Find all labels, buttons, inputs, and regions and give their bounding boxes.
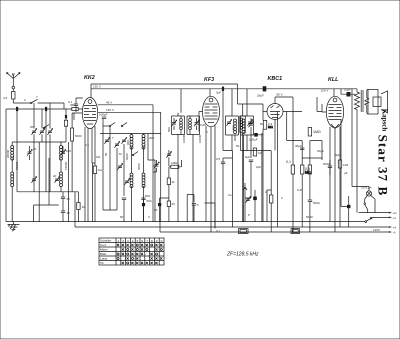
trimmer osc4 [117, 164, 122, 170]
capacitor 5000 [308, 200, 320, 205]
svg-text:20000: 20000 [6, 149, 10, 158]
svg-text:148: 148 [343, 163, 348, 167]
switch mains [365, 217, 372, 222]
text ZF [226, 251, 259, 257]
svg-text:0,1: 0,1 [85, 143, 90, 147]
capacitor blob inline2 [45, 107, 47, 111]
wire +H line [359, 211, 397, 215]
rail 45V [98, 101, 153, 105]
wire KK2 anode to rail [90, 89, 92, 98]
wire osc bottom [103, 134, 155, 222]
coil det [240, 116, 246, 133]
label misc13 [53, 174, 57, 178]
label s5 [85, 143, 90, 147]
svg-text:50: 50 [104, 152, 108, 156]
svg-text:1Ω: 1Ω [82, 205, 87, 209]
resistor 1M af [253, 148, 262, 156]
trimmer mid2 [166, 150, 171, 166]
label misc7 [216, 229, 221, 233]
coil IF1a [180, 119, 183, 130]
trimmer T1 [27, 150, 32, 156]
wire sg2 cluster [181, 89, 200, 222]
svg-text:50: 50 [154, 208, 158, 212]
svg-text:5: 5 [197, 203, 199, 207]
svg-text:6000: 6000 [137, 163, 141, 170]
label misc1 [149, 136, 154, 140]
switch S1 band [13, 99, 64, 103]
svg-text:-H: -H [393, 216, 396, 220]
volume pot [243, 187, 251, 210]
wire KBC1 sides [263, 112, 302, 134]
capacitor 90uF [253, 190, 257, 222]
svg-text:45: 45 [67, 197, 71, 201]
svg-text:µF: µF [344, 171, 348, 175]
wire -H line [372, 216, 396, 220]
coil Losc1 [126, 135, 133, 150]
svg-text:KF3: KF3 [204, 77, 214, 83]
wire misc right [302, 97, 341, 196]
coil Losc3 [130, 173, 133, 188]
svg-text:0,05: 0,05 [200, 123, 206, 127]
trimmer T2 [60, 150, 65, 156]
wire KBC1 85V [275, 93, 293, 141]
wire KK2 left links [74, 98, 83, 120]
bus -A 125V [160, 228, 396, 234]
svg-text:30µF: 30µF [317, 149, 324, 153]
svg-text:15000: 15000 [64, 161, 68, 170]
svg-text:6: 6 [141, 239, 143, 243]
svg-text:50: 50 [260, 122, 264, 126]
wire rc links [271, 112, 277, 233]
connector box2 [291, 229, 300, 234]
capacitor blob left3 [65, 115, 67, 120]
wire osc columns [103, 134, 144, 222]
coil IF1b [189, 119, 207, 130]
label misc10 [297, 188, 303, 192]
resistor rc1 [265, 190, 273, 203]
svg-text:0,5: 0,5 [216, 157, 221, 161]
label KK2 [84, 75, 95, 81]
tube KBC1 [267, 104, 283, 120]
svg-text:2: 2 [281, 196, 283, 200]
wire sg cluster [172, 113, 185, 222]
svg-text:25: 25 [172, 202, 176, 206]
svg-text:+H: +H [393, 211, 397, 215]
svg-text:45: 45 [67, 211, 71, 215]
svg-text:10000: 10000 [182, 134, 186, 143]
svg-text:+A: +A [393, 226, 397, 230]
resistor 0,5M r [301, 165, 311, 174]
capacitor 30uF [295, 144, 304, 150]
switch lamp [364, 196, 368, 213]
capacitor 45a [61, 197, 70, 201]
trimmer osc2 [114, 142, 119, 148]
svg-text:ZF=128,5 kHz: ZF=128,5 kHz [226, 251, 259, 257]
svg-text:500: 500 [145, 194, 150, 198]
svg-text:200: 200 [149, 136, 154, 140]
bus chassis [6, 221, 365, 223]
svg-text:135 V: 135 V [93, 85, 101, 89]
wire left verticals [6, 103, 66, 222]
wire avc link [17, 142, 95, 222]
svg-text:0,25: 0,25 [297, 188, 303, 192]
label misc12 [33, 147, 37, 151]
label misc11 [335, 153, 340, 157]
wire KK2 pins down [85, 126, 95, 222]
capacitor 10uF kll [341, 88, 355, 97]
resistor 1M horizontal [169, 160, 182, 168]
svg-text:M: M [119, 152, 122, 156]
wire mid corner [187, 195, 194, 222]
wire af links [223, 89, 251, 227]
coil IF2 [242, 119, 245, 134]
svg-text:5: 5 [137, 239, 139, 243]
label s7 [112, 136, 114, 140]
text Star 37 B [376, 135, 391, 197]
capacitor 100pF grid [99, 113, 108, 119]
svg-text:9: 9 [156, 239, 158, 243]
label misc15 [64, 161, 68, 170]
oscillator switch bank [103, 123, 138, 156]
wire det bottom [251, 129, 275, 221]
svg-text:4,5: 4,5 [3, 96, 8, 100]
svg-text:1k: 1k [172, 180, 176, 184]
svg-text:125V: 125V [373, 228, 380, 232]
svg-text:6000: 6000 [125, 153, 129, 160]
wire left mid links [12, 142, 63, 222]
wire antenna down [3, 89, 13, 103]
rail top second [91, 84, 243, 104]
svg-text:50: 50 [120, 215, 124, 219]
capacitor 50uF blob [154, 198, 169, 222]
wire IF1 links [232, 89, 235, 151]
wire kk2 cath [85, 150, 95, 222]
IF transformer 2 [241, 116, 254, 135]
capacitor 26uF [257, 86, 266, 97]
ground [8, 222, 20, 232]
wire tone [329, 160, 331, 175]
svg-text:50: 50 [236, 144, 240, 148]
svg-text:4: 4 [132, 239, 134, 243]
svg-text:Kapsch: Kapsch [381, 109, 389, 132]
wire padder [34, 192, 63, 222]
svg-text:5000: 5000 [323, 162, 330, 166]
IF transformer 1 [226, 116, 239, 135]
label s8 [119, 152, 122, 156]
svg-text:120 V: 120 V [321, 89, 329, 93]
speaker [367, 90, 388, 115]
resistor cath kll [338, 160, 348, 168]
wire bus drops [159, 222, 161, 232]
svg-text:3: 3 [148, 215, 150, 219]
svg-text:1MΩ: 1MΩ [171, 161, 178, 165]
resistor 25 [167, 201, 175, 222]
antenna [7, 73, 21, 87]
svg-text:5000: 5000 [306, 215, 313, 219]
label KF3 [204, 77, 214, 83]
coil Losc4 [142, 173, 145, 188]
coil Losc2 [142, 135, 145, 150]
text Kapsch [381, 109, 389, 132]
bus +A [75, 192, 396, 230]
svg-text:Ce: Ce [228, 193, 232, 197]
svg-text:2V,0,2A: 2V,0,2A [361, 186, 371, 190]
trimmer IF1b [194, 120, 199, 126]
wire lamp top feed [352, 89, 369, 191]
svg-text:20: 20 [53, 174, 57, 178]
label s18 [344, 171, 348, 175]
rail 135V [91, 85, 327, 89]
svg-text:26µF: 26µF [257, 94, 264, 98]
wire res link [77, 192, 79, 222]
svg-text:0,3MΩ: 0,3MΩ [268, 122, 273, 129]
capacitor blob rail [216, 87, 224, 95]
svg-text:M: M [44, 125, 47, 129]
wire IF2 links [241, 89, 272, 222]
svg-text:100µF: 100µF [249, 138, 258, 142]
svg-text:8µF: 8µF [335, 153, 340, 157]
svg-text:5µF: 5µF [245, 155, 250, 159]
label KLL [328, 77, 338, 83]
label s4 [44, 125, 47, 129]
svg-text:7: 7 [36, 95, 38, 99]
svg-text:0: 0 [161, 239, 163, 243]
trimmer row C [47, 129, 52, 192]
svg-text:30: 30 [33, 147, 37, 151]
svg-text:3µF: 3µF [216, 91, 221, 95]
svg-text:0,1: 0,1 [216, 229, 221, 233]
svg-text:2: 2 [122, 239, 124, 243]
label s1 [24, 98, 26, 102]
wire af extra [205, 133, 272, 227]
coil IF1 [232, 119, 237, 134]
label s19 [306, 215, 313, 219]
svg-text:Blatt: Blatt [100, 252, 106, 256]
svg-text:1: 1 [117, 239, 119, 243]
wire KF3 anode [209, 89, 211, 97]
label s12 [206, 130, 208, 134]
svg-text:Kurz: Kurz [100, 243, 107, 247]
svg-text:Lang: Lang [100, 257, 107, 261]
label s10 [120, 215, 124, 219]
svg-text:Mittel: Mittel [100, 248, 108, 252]
trimmer row A [31, 129, 36, 192]
capacitor 45b [61, 211, 70, 215]
svg-text:500: 500 [147, 199, 152, 203]
svg-text:0,1: 0,1 [286, 160, 291, 164]
coil L1 [6, 146, 14, 161]
trimmer IF2 [247, 120, 252, 126]
svg-text:20000: 20000 [15, 161, 19, 170]
capacitor 50pF af [221, 158, 225, 222]
capacitor blob2 [142, 196, 145, 222]
svg-text:-A: -A [393, 231, 396, 235]
output transformer primary [341, 89, 360, 213]
trimmer osc1 [104, 138, 109, 144]
capacitor blob inline1 [16, 107, 18, 111]
label s2 [36, 95, 38, 99]
wire right res cluster [287, 112, 303, 233]
svg-text:7: 7 [146, 239, 148, 243]
svg-text:KΩ: KΩ [96, 155, 101, 159]
resistor Ra antenna [12, 92, 15, 100]
svg-text:KBC1: KBC1 [268, 76, 283, 82]
antenna plug [12, 86, 15, 89]
svg-text:Schalter: Schalter [100, 239, 111, 243]
wire osc top line [100, 119, 161, 134]
svg-text:5000: 5000 [313, 201, 320, 205]
resistor 0,3M [263, 120, 273, 129]
label s9 [145, 194, 150, 198]
wire det links [243, 104, 263, 222]
svg-text:10µF: 10µF [344, 88, 351, 92]
resistor 1k [167, 167, 175, 201]
trimmer mid1 [153, 160, 159, 172]
svg-text:KK2: KK2 [84, 75, 95, 81]
trimmer row B [39, 129, 44, 142]
svg-text:1MΩ: 1MΩ [313, 130, 321, 134]
wire left line B [6, 108, 66, 110]
svg-text:000: 000 [232, 125, 236, 130]
label misc5 [182, 134, 186, 143]
tube KF3 [202, 96, 219, 126]
label s17 [317, 149, 324, 153]
label s11 [148, 215, 150, 219]
label s13 [216, 157, 221, 161]
capacitor 100uF det [249, 133, 258, 142]
tube KLL [326, 96, 343, 128]
table switch chart [99, 238, 164, 265]
trimmer IF1 [226, 120, 231, 126]
coil L2 [60, 146, 72, 161]
wire KLL pins [322, 104, 340, 232]
capacitor padder1 [122, 198, 126, 200]
capacitor mains blob [341, 196, 350, 227]
label s16 [281, 196, 283, 200]
transformer secondary [365, 90, 369, 113]
wire coil column tops [12, 142, 61, 146]
capacitor 5uF [245, 155, 253, 162]
svg-text:000: 000 [167, 127, 171, 132]
label s14 [228, 193, 232, 197]
trimmer osc5 [124, 179, 129, 185]
coil L3 [11, 172, 14, 187]
label misc9 [256, 165, 261, 169]
resistor left small [61, 120, 68, 142]
resistor 45ohm [66, 103, 82, 111]
wire 45V drop [152, 105, 154, 222]
trimmer IF1a [167, 120, 177, 132]
svg-text:K: K [206, 130, 208, 134]
tube KK2 [82, 98, 97, 129]
label s15 [248, 213, 250, 217]
svg-text:85 V: 85 V [277, 93, 283, 97]
svg-text:2: 2 [24, 98, 26, 102]
trimmer det [248, 121, 253, 127]
label misc8 [236, 144, 240, 148]
svg-text:5000: 5000 [75, 134, 82, 138]
svg-text:TA: TA [100, 261, 105, 265]
resistor KA cathode [93, 166, 102, 174]
trimmer osc3 [121, 138, 126, 144]
svg-text:7: 7 [112, 136, 114, 140]
capacitor tone [323, 162, 332, 168]
resistor grid stopper KLL [308, 128, 321, 137]
svg-text:3P: 3P [30, 125, 34, 129]
label s20 [260, 122, 264, 126]
svg-text:30µF: 30µF [295, 144, 302, 148]
resistor 0,35M [308, 165, 311, 174]
wire KF3 pins [199, 112, 215, 233]
svg-text:10000: 10000 [198, 134, 202, 143]
svg-text:Star 37 B: Star 37 B [376, 135, 391, 197]
svg-text:100pF: 100pF [99, 113, 108, 117]
coil tall left [71, 113, 82, 192]
capacitor padder2 [141, 198, 152, 203]
label misc14 [15, 161, 19, 170]
capacitor 5 mid [192, 203, 199, 222]
wire lamp right leg [371, 196, 375, 213]
transformer core [361, 90, 363, 112]
svg-text:0,1: 0,1 [68, 100, 73, 104]
svg-text:P: P [248, 213, 250, 217]
wire kll grid [310, 141, 322, 233]
switch band2 [43, 125, 49, 129]
wire KLL top 120V [321, 89, 342, 97]
resistor 1M left [77, 203, 86, 210]
svg-text:45 V: 45 V [106, 101, 112, 105]
trimmer T3 [31, 177, 36, 183]
resistor 0,1M r [286, 160, 295, 174]
rail 130V [98, 108, 161, 112]
svg-text:3: 3 [127, 239, 129, 243]
svg-text:KLL: KLL [328, 77, 338, 83]
coil L4 [60, 172, 63, 187]
svg-text:000: 000 [126, 140, 130, 145]
label misc6 [198, 134, 202, 143]
label misc4 [104, 152, 108, 156]
svg-text:KA: KA [98, 168, 102, 172]
label s3 [30, 125, 34, 129]
wire 130V drop [160, 112, 162, 221]
label misc2 [137, 163, 141, 170]
lamp 2V 0,2A [361, 186, 372, 197]
label KBC1 [268, 76, 283, 82]
trimmer T4 [54, 177, 59, 183]
connector box1 [239, 229, 249, 234]
capacitor 0,1uF KK2 [68, 100, 78, 106]
label misc3 [125, 153, 129, 160]
svg-text:2µF: 2µF [256, 165, 261, 169]
svg-text:8: 8 [151, 239, 153, 243]
label s6 [96, 155, 101, 159]
